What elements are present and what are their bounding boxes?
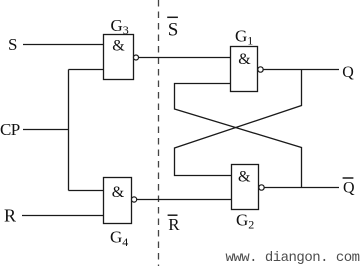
svg-text:G4: G4 <box>110 228 128 250</box>
svg-text:R: R <box>168 215 180 234</box>
svg-text:CP: CP <box>0 120 20 139</box>
svg-text:G2: G2 <box>236 211 254 232</box>
svg-text:&: & <box>112 38 125 55</box>
svg-text:Q: Q <box>343 180 355 197</box>
svg-text:G3: G3 <box>111 16 129 37</box>
svg-text:&: & <box>238 51 251 68</box>
svg-text:G1: G1 <box>235 27 253 48</box>
svg-text:S: S <box>8 35 17 54</box>
svg-text:S: S <box>168 20 179 41</box>
svg-text:www. diangon. com: www. diangon. com <box>226 250 360 266</box>
svg-text:R: R <box>4 206 16 226</box>
svg-text:&: & <box>112 184 125 201</box>
svg-text:&: & <box>238 168 251 185</box>
svg-text:Q: Q <box>342 64 354 81</box>
